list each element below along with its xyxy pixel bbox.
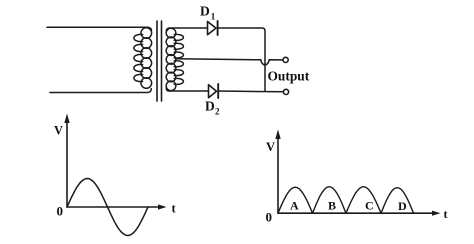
svg-text:D: D [398, 199, 407, 213]
right graph t axis [278, 212, 433, 214]
svg-text:0: 0 [57, 204, 64, 219]
svg-text:C: C [365, 199, 374, 213]
svg-text:Output: Output [268, 69, 310, 84]
left graph V axis [66, 121, 68, 207]
terminal lower [283, 89, 288, 94]
right graph hump A [278, 187, 313, 213]
svg-text:D: D [200, 4, 210, 19]
svg-text:t: t [172, 202, 177, 216]
wire D1 to corner down to D2 rail [218, 28, 265, 91]
svg-text:D: D [205, 99, 215, 114]
wire D2 to lower terminal [218, 90, 283, 93]
left graph sine wave [67, 179, 148, 236]
svg-text:0: 0 [266, 210, 273, 225]
svg-text:A: A [290, 199, 299, 213]
right graph V axis arrowhead [275, 130, 280, 140]
wire secondary bottom to D2 [166, 88, 208, 91]
svg-text:1: 1 [211, 12, 216, 22]
wire center tap with hop over vertical wire [176, 59, 283, 65]
right graph hump C [346, 187, 381, 214]
svg-text:B: B [328, 199, 336, 213]
transformer T1 core [156, 21, 158, 101]
svg-text:t: t [444, 207, 448, 221]
right graph t axis arrowhead [432, 211, 441, 216]
wire primary top lead [47, 27, 151, 31]
svg-text:V: V [54, 124, 63, 138]
terminal upper [283, 57, 288, 62]
svg-text:2: 2 [215, 107, 220, 117]
transformer T1 secondary winding [166, 28, 176, 38]
right graph V axis [277, 137, 279, 213]
diode D1 [208, 22, 217, 35]
svg-text:V: V [266, 140, 275, 154]
transformer T1 primary winding [141, 28, 152, 39]
left graph V axis arrowhead [64, 114, 69, 124]
wire primary bottom lead [50, 89, 151, 93]
left graph t axis [67, 206, 159, 208]
left graph t axis arrowhead [158, 204, 167, 209]
diode D2 [209, 85, 217, 98]
right graph hump B [313, 187, 347, 214]
right graph hump D [381, 188, 414, 214]
wire secondary top to D1 [166, 28, 207, 31]
